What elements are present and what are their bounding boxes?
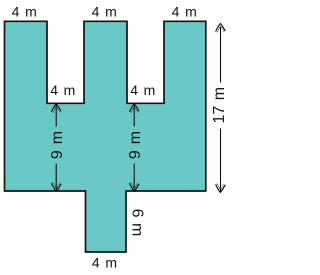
svg-text:4 m: 4 m <box>172 3 197 19</box>
svg-text:6 m: 6 m <box>128 209 145 237</box>
9 m arrow (gap 1) <box>51 104 61 192</box>
9 m arrow (gap 2) <box>129 104 139 192</box>
svg-text:4 m: 4 m <box>12 3 37 19</box>
svg-text:17 m: 17 m <box>211 87 228 124</box>
svg-text:9 m: 9 m <box>49 131 66 159</box>
comb-shaped polygon (three top prongs + bottom prong) <box>5 21 206 252</box>
svg-text:4 m: 4 m <box>50 82 75 98</box>
svg-text:4 m: 4 m <box>92 254 117 270</box>
svg-text:4 m: 4 m <box>130 82 155 98</box>
svg-text:9 m: 9 m <box>127 131 144 159</box>
17 m arrow (right side, double headed, broken by label) <box>216 24 226 193</box>
svg-text:4 m: 4 m <box>92 3 117 19</box>
